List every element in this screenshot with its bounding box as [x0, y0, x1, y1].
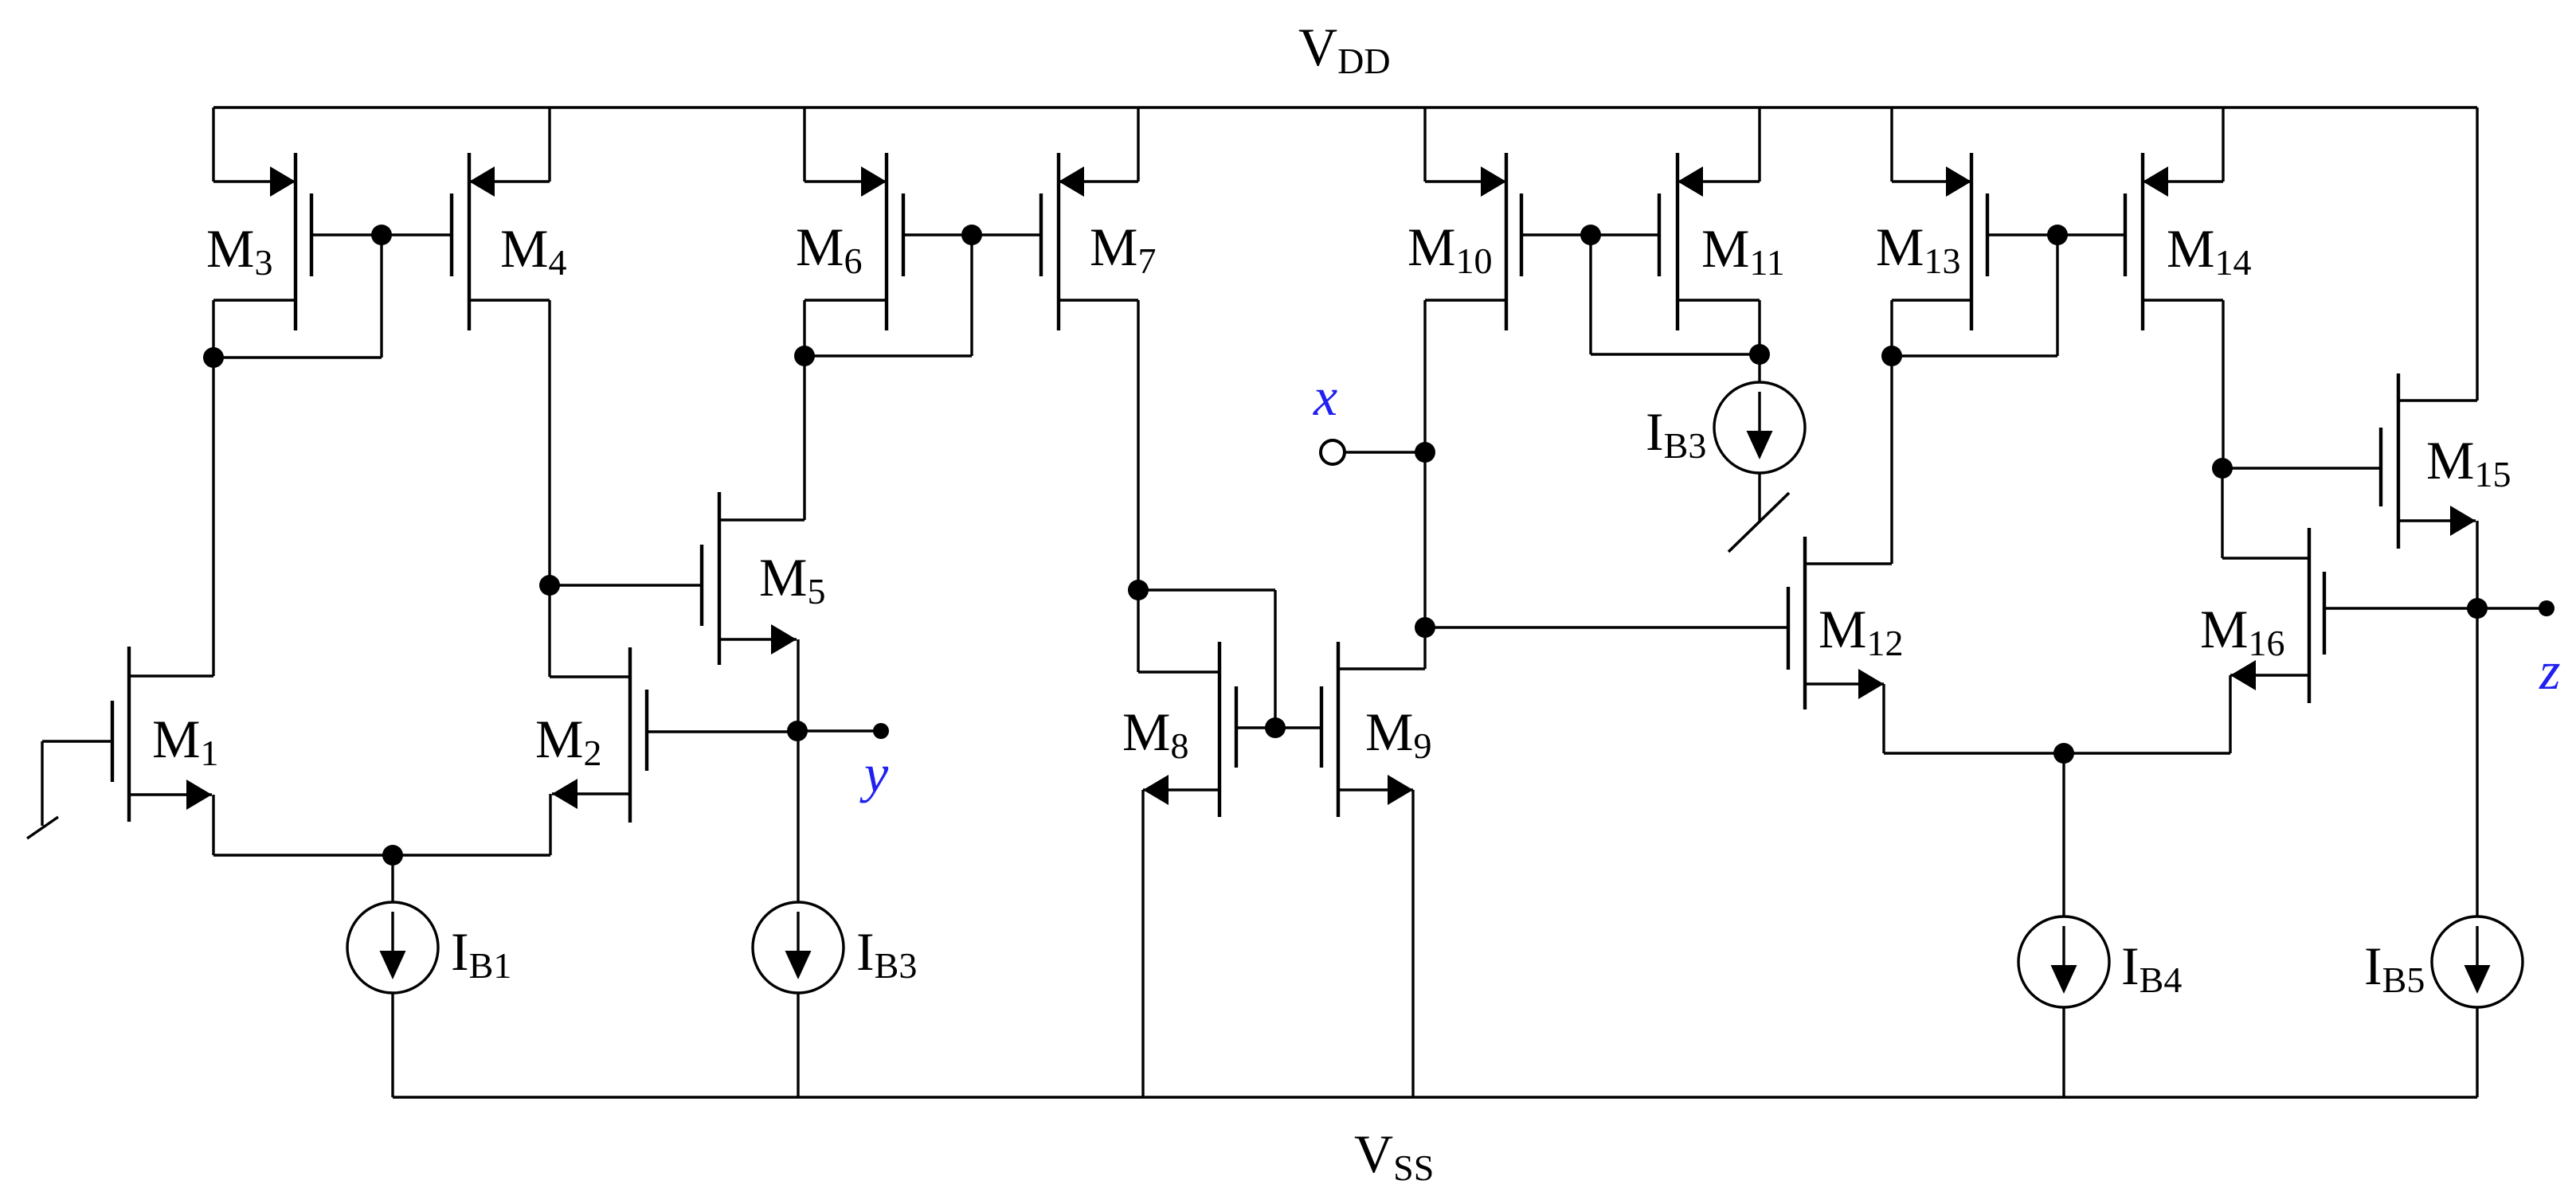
- wire y stub: [797, 729, 881, 732]
- label M7: [1090, 217, 1156, 281]
- wire M2 source to tail: [393, 794, 550, 855]
- label z: [2539, 640, 2560, 701]
- svg-text:z: z: [2539, 640, 2560, 701]
- label M2: [535, 709, 601, 773]
- label M11: [1701, 218, 1785, 283]
- wire M5 gate lead: [550, 584, 702, 586]
- wire M4 drain to M2 drain: [548, 300, 550, 677]
- wire VDD to M11 source: [1758, 107, 1760, 182]
- transistor M2: [550, 647, 647, 823]
- current source IB5: [2432, 916, 2523, 1097]
- label VDD: [1298, 17, 1391, 81]
- current source IB3 left: [753, 902, 844, 1097]
- node IB4 junction: [2053, 743, 2074, 764]
- node z junction: [2467, 598, 2488, 619]
- wire M3 drain to M1 drain: [212, 300, 214, 676]
- wire M8-M9 gate lead: [1236, 726, 1321, 729]
- transistor M1: [112, 647, 213, 822]
- terminal x: [1321, 440, 1345, 464]
- label IB3 left: [856, 921, 917, 986]
- wire VDD to M4 source: [548, 107, 550, 182]
- transistor M16: [2222, 528, 2324, 703]
- label IB4: [2121, 936, 2182, 1000]
- wire M10-M11 gate tie: [1521, 235, 1760, 354]
- label M13: [1876, 217, 1960, 281]
- wire VDD to M3 source: [212, 107, 214, 182]
- label M12: [1818, 599, 1903, 663]
- label y: [859, 743, 889, 803]
- node M14-M16 drains: [2212, 458, 2233, 479]
- node M10-M11 gates: [1580, 225, 1601, 245]
- node M8-M9 gates: [1265, 717, 1286, 738]
- power rail VSS: [393, 1096, 2477, 1098]
- label M16: [2200, 599, 2284, 663]
- label M6: [796, 217, 862, 281]
- label M15: [2426, 430, 2511, 494]
- termination slash IB3 upper: [1728, 493, 1789, 552]
- transistor M5: [702, 492, 805, 665]
- label M4: [500, 218, 566, 283]
- wire M7 drain column: [1137, 300, 1139, 672]
- wire M8 source to VSS: [1141, 790, 1144, 1097]
- wire VDD to M13 source: [1890, 107, 1893, 182]
- terminal z: [2539, 600, 2554, 616]
- wire x stub: [1345, 451, 1425, 453]
- transistor M11: [1659, 153, 1760, 330]
- wire VDD to M10 source: [1423, 107, 1426, 182]
- wire M13 drain to M12 drain: [1890, 300, 1893, 564]
- transistor M12: [1788, 537, 1892, 709]
- label M9: [1365, 702, 1431, 766]
- node tail junction: [382, 845, 403, 866]
- transistor M6: [805, 153, 903, 330]
- wire M6-M7 gate tie: [805, 235, 1041, 356]
- label M1: [152, 709, 218, 773]
- wire M7 drain to M8-M9 gates: [1138, 590, 1275, 728]
- current source IB1: [347, 855, 438, 1097]
- label M5: [759, 547, 825, 612]
- transistor M7: [1041, 153, 1138, 330]
- wire M14 drain to M16 drain: [2221, 468, 2223, 558]
- node M6 drain tie: [794, 346, 815, 366]
- label M14: [2167, 218, 2251, 283]
- power rail VDD: [213, 106, 2477, 108]
- node M11 drain tie: [1749, 344, 1770, 365]
- wire y node to IB3: [797, 731, 799, 902]
- current source IB4: [2018, 753, 2109, 1097]
- wire M10 drain column: [1423, 300, 1426, 669]
- node M13-M14 gates: [2047, 225, 2068, 245]
- node M7-M8 drains: [1128, 580, 1149, 600]
- transistor M4: [452, 153, 550, 330]
- label VSS: [1354, 1124, 1434, 1188]
- label M8: [1122, 702, 1188, 766]
- wire M9 drain to M12 gate: [1425, 626, 1788, 628]
- wire VDD to M7 source: [1137, 107, 1139, 182]
- label M3: [206, 218, 272, 283]
- wire M2 gate to y node: [647, 730, 797, 733]
- wire M5 source to y node: [797, 639, 799, 731]
- svg-text:y: y: [859, 743, 889, 803]
- node M13 drain tie: [1881, 346, 1902, 366]
- node M6-M7 gates: [961, 225, 982, 245]
- label IB3 upper: [1646, 401, 1706, 466]
- node M3 drain tie: [203, 347, 224, 368]
- current source IB3 upper: [1714, 354, 1805, 522]
- wire M11 drain column: [1758, 300, 1760, 354]
- wire M16 gate to z node: [2324, 607, 2477, 609]
- node M3-M4 gates: [371, 225, 392, 245]
- wire M15 gate lead: [2222, 467, 2381, 469]
- transistor M8: [1138, 642, 1236, 817]
- label IB5: [2364, 936, 2425, 1000]
- wire M9 source to VSS: [1411, 790, 1414, 1097]
- wire VDD to M6 source: [803, 107, 805, 182]
- node M9 drain junction: [1415, 617, 1435, 638]
- wire z stub: [2477, 607, 2547, 609]
- transistor M15: [2381, 373, 2477, 549]
- label x: [1313, 366, 1337, 427]
- label IB1: [451, 921, 511, 986]
- terminal y: [873, 723, 889, 739]
- wire M13-M14 gate tie: [1892, 235, 2125, 356]
- node y junction: [787, 721, 808, 741]
- wire M12 source to IB4 node: [1884, 684, 2064, 753]
- wire M14 drain column: [2222, 300, 2224, 468]
- transistor M9: [1321, 642, 1425, 817]
- wire VDD right arm to M15 drain: [2476, 107, 2478, 401]
- node x junction: [1415, 442, 1435, 463]
- wire M3-M4 gate tie: [213, 235, 452, 358]
- wire M1 source to tail: [213, 795, 393, 855]
- input slash M1 gate: [27, 817, 58, 838]
- label M10: [1407, 217, 1492, 281]
- wire M6 drain to M5 drain: [803, 300, 805, 520]
- transistor M13: [1892, 153, 1987, 330]
- transistor M14: [2125, 153, 2223, 330]
- wire M15 source to z and IB5: [2476, 521, 2478, 916]
- node M5 gate branch: [539, 575, 560, 596]
- transistor M10: [1425, 153, 1521, 330]
- svg-text:x: x: [1313, 366, 1337, 427]
- wire VDD to M14 source: [2222, 107, 2224, 182]
- wire M1 gate lead: [42, 741, 112, 826]
- transistor M3: [213, 153, 311, 330]
- wire M16 source to IB4 node: [2064, 675, 2230, 753]
